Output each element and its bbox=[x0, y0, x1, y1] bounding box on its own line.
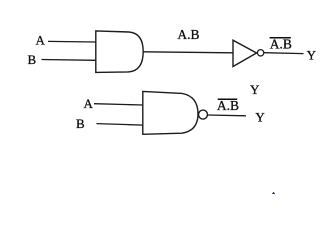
svg-text:Y: Y bbox=[255, 109, 265, 124]
wire AND output to NOT bbox=[143, 52, 232, 53]
wire B to NAND gate bbox=[97, 124, 143, 126]
wire NOT output bbox=[264, 52, 304, 55]
NAND gate bubble bbox=[199, 110, 208, 119]
blue mark at bottom edge bbox=[272, 192, 275, 194]
NAND gate U3 bbox=[143, 91, 198, 134]
overline bar (top A.B complement) bbox=[270, 37, 291, 39]
svg-text:Y: Y bbox=[250, 82, 260, 97]
wire A to AND gate bbox=[48, 40, 96, 43]
NOT gate U2 triangle bbox=[233, 40, 257, 66]
svg-text:A: A bbox=[84, 96, 94, 111]
NOT gate bubble bbox=[257, 50, 263, 56]
svg-text:B: B bbox=[76, 116, 85, 131]
svg-text:A: A bbox=[36, 33, 46, 48]
svg-text:B: B bbox=[28, 52, 37, 67]
svg-text:Y: Y bbox=[307, 47, 317, 62]
wire B to AND gate bbox=[42, 59, 96, 62]
svg-text:A.B: A.B bbox=[177, 27, 199, 42]
wire A to NAND gate bbox=[94, 104, 143, 105]
AND gate U1 bbox=[96, 31, 143, 73]
svg-text:A.B: A.B bbox=[270, 37, 292, 52]
wire NAND output bbox=[208, 114, 246, 117]
svg-text:A.B: A.B bbox=[217, 98, 239, 113]
overline bar (bottom A.B complement) bbox=[218, 98, 238, 100]
